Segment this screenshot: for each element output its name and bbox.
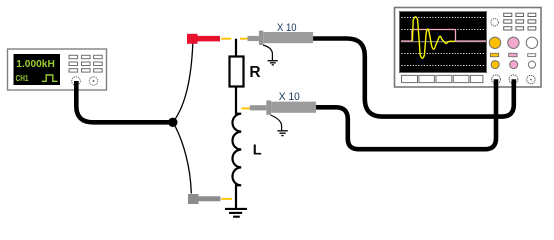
svg-text:1.000kH: 1.000kH: [16, 58, 55, 70]
svg-text:CH1: CH1: [16, 73, 29, 83]
svg-text:R: R: [249, 64, 260, 81]
svg-text:X 10: X 10: [277, 22, 297, 34]
svg-text:X 10: X 10: [279, 91, 300, 103]
svg-text:L: L: [253, 142, 262, 158]
